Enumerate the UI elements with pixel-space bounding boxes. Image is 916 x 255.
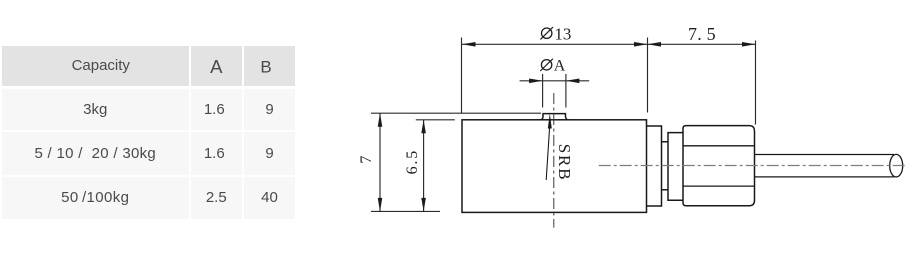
svg-text:SRB: SRB — [555, 144, 574, 182]
svg-text:A: A — [554, 58, 566, 75]
svg-text:6.5: 6.5 — [404, 149, 421, 174]
svg-text:13: 13 — [554, 24, 571, 43]
svg-text:7. 5: 7. 5 — [688, 24, 716, 44]
svg-text:7: 7 — [358, 156, 375, 164]
